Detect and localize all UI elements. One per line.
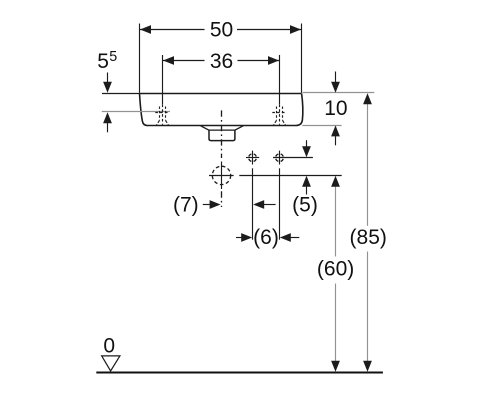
svg-text:(7): (7) <box>173 193 199 216</box>
svg-text:5: 5 <box>109 49 117 65</box>
svg-text:50: 50 <box>210 19 233 42</box>
svg-text:5: 5 <box>97 50 109 73</box>
svg-text:10: 10 <box>324 97 347 120</box>
svg-text:(5): (5) <box>292 193 318 216</box>
svg-text:(60): (60) <box>317 258 354 281</box>
svg-text:(85): (85) <box>350 226 387 249</box>
svg-text:(6): (6) <box>253 226 279 249</box>
svg-text:0: 0 <box>103 335 115 358</box>
svg-text:36: 36 <box>210 50 233 73</box>
